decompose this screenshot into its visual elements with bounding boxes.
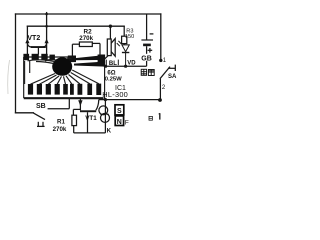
svg-text:HL-300: HL-300 xyxy=(102,90,128,99)
figure caption Fig.1 glyphs xyxy=(149,113,160,120)
wire W2 to SA xyxy=(99,99,161,101)
svg-text:SB: SB xyxy=(36,103,46,110)
wire stub right of BL label xyxy=(117,60,119,66)
svg-text:270k: 270k xyxy=(79,35,93,42)
IC1 die blob xyxy=(52,57,72,75)
svg-text:150: 150 xyxy=(125,34,134,40)
label anti-theft (Chinese glyphs) xyxy=(141,69,154,75)
resistor R1 xyxy=(72,109,81,132)
svg-text:VD: VD xyxy=(127,60,136,66)
node A junction W1/speaker xyxy=(109,25,112,28)
IC1 right wedge pad 2 xyxy=(74,62,105,67)
svg-text:F: F xyxy=(125,120,129,127)
wire VT2 emitter vertical xyxy=(26,26,28,54)
svg-text:SA: SA xyxy=(168,74,177,80)
transistor VT1 xyxy=(78,99,99,133)
svg-text:R1: R1 xyxy=(57,118,65,125)
node junction K top xyxy=(104,98,107,101)
diode VD (LED) xyxy=(117,41,130,66)
wire left rail xyxy=(15,14,17,113)
svg-text:S: S xyxy=(117,108,122,115)
svg-text:270k: 270k xyxy=(53,126,67,133)
scan artifact line xyxy=(8,60,10,94)
wire bottom-left to SB xyxy=(16,112,34,114)
reed switch K xyxy=(99,100,110,133)
wire W1 horizontal bus xyxy=(27,25,124,27)
wire bottom rail xyxy=(74,132,106,134)
node junction VD/N1 xyxy=(124,65,127,68)
IC1 upper pad row xyxy=(23,54,76,62)
wire VT2 collector vertical from top rail xyxy=(46,13,48,55)
svg-text:VT2: VT2 xyxy=(27,35,40,42)
switch SB xyxy=(33,99,69,127)
svg-text:0.25W: 0.25W xyxy=(105,76,122,82)
wire node N1 horizontal xyxy=(104,65,147,67)
IC1 bond wires xyxy=(25,58,99,84)
IC1 COB board outline xyxy=(24,57,105,99)
resistor R3 xyxy=(122,26,127,45)
svg-text:VT1: VT1 xyxy=(85,115,97,122)
transistor VT2 xyxy=(25,39,48,55)
IC1 right square pad xyxy=(98,55,106,63)
resistor R2 xyxy=(72,42,100,56)
wire right rail to SA xyxy=(160,14,162,60)
svg-text:K: K xyxy=(107,128,112,135)
label GB xyxy=(139,54,152,61)
node junction SA bottom xyxy=(158,98,162,102)
IC1 bottom pad row xyxy=(28,84,101,95)
speaker BL xyxy=(104,26,116,60)
switch SA xyxy=(159,59,175,100)
wire stub left of BL label xyxy=(105,60,107,66)
node junction W1 x46.6 xyxy=(45,25,48,28)
node junction N1 left xyxy=(104,65,107,68)
svg-text:N: N xyxy=(117,119,122,126)
magnet F south pole box S xyxy=(115,105,124,115)
svg-text:GB: GB xyxy=(141,55,152,62)
battery GB xyxy=(141,14,153,66)
IC1 right wedge pad 1 xyxy=(74,56,98,61)
node junction top rail x46.6 xyxy=(45,13,48,16)
wire top supply rail xyxy=(16,13,161,15)
magnet F north pole box N xyxy=(115,116,123,126)
